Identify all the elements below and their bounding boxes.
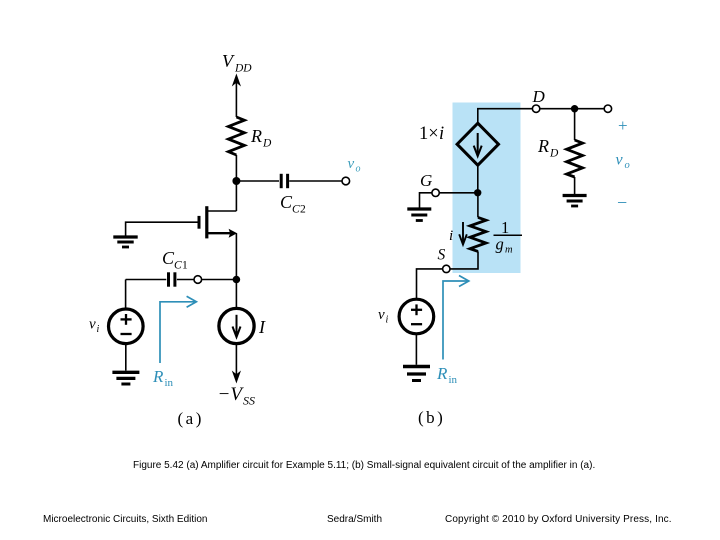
wire D to junction <box>540 108 575 110</box>
label i with arrow <box>449 222 467 245</box>
svg-text:o: o <box>356 164 361 175</box>
wire v_i to C_C1 <box>126 279 167 281</box>
svg-text:Copyright © 2010 by Oxford Uni: Copyright © 2010 by Oxford University Pr… <box>445 514 672 525</box>
resistor R_D (b) <box>567 140 583 177</box>
terminal gate input (a) <box>194 276 202 284</box>
svg-text:+: + <box>618 116 628 135</box>
svg-text:o: o <box>625 160 630 171</box>
wire C_C2 to output terminal <box>289 180 342 182</box>
node G junction <box>474 189 481 196</box>
capacitor C_C2 <box>281 174 287 188</box>
svg-text:C: C <box>292 204 300 216</box>
svg-text:v: v <box>616 152 624 169</box>
svg-text:Microelectronic Circuits, Sixt: Microelectronic Circuits, Sixth Edition <box>43 514 208 525</box>
wire G terminal to junction <box>439 192 477 194</box>
label v_i (a) <box>89 317 100 336</box>
label v_i (b) <box>378 307 389 326</box>
terminal G <box>432 189 439 196</box>
label V_DD <box>222 51 252 75</box>
wire R_D to ground (b) <box>574 177 576 194</box>
svg-text:v: v <box>89 317 96 333</box>
wire S to v_i (b) <box>417 269 443 299</box>
svg-text:D: D <box>549 148 559 160</box>
svg-text:v: v <box>348 156 355 172</box>
svg-text:i: i <box>386 315 389 326</box>
svg-text:G: G <box>420 171 432 190</box>
terminal S <box>443 265 450 272</box>
svg-text:in: in <box>449 374 458 386</box>
wire 1/gm to S <box>450 251 478 269</box>
label C_C1 <box>162 248 188 272</box>
voltage source v_i (b) <box>399 299 434 334</box>
resistor R_D (a) <box>228 117 244 155</box>
label 1xi <box>419 124 444 144</box>
svg-text:m: m <box>505 245 513 256</box>
ground (R_D b) <box>563 196 587 207</box>
node source junction (a) <box>233 276 241 284</box>
dependent source 1xi (diamond) <box>457 123 498 165</box>
wire junction to right terminal <box>575 108 605 110</box>
terminal v_o (a) <box>342 177 350 185</box>
wire source down to input node <box>235 233 237 279</box>
svg-text:1: 1 <box>182 260 188 272</box>
wire v_i top lead <box>125 280 127 309</box>
svg-text:g: g <box>496 235 504 254</box>
wire C_C1 to terminal <box>177 279 194 281</box>
label -V_SS <box>218 384 256 408</box>
terminal output (b) <box>604 105 611 112</box>
arrow R_in (a) <box>160 296 196 363</box>
terminal D <box>532 105 539 112</box>
svg-text:S: S <box>438 247 446 264</box>
label R_in (b) <box>436 364 458 386</box>
voltage source v_i (a) <box>109 309 144 344</box>
highlight rectangle (b) <box>453 103 521 274</box>
svg-text:R: R <box>250 126 262 146</box>
svg-text:D: D <box>532 87 546 106</box>
wire resistor to drain node <box>235 155 237 181</box>
label R_D (b) <box>537 136 559 160</box>
ground (v_i a) <box>112 372 139 384</box>
svg-text:−: − <box>617 193 627 213</box>
resistor 1/gm <box>470 217 486 251</box>
current source I (a) <box>219 308 254 343</box>
wire node down to MOSFET drain <box>235 181 237 211</box>
wire diamond top to D <box>478 109 533 124</box>
label v_o (b) <box>616 152 630 172</box>
svg-text:1×: 1× <box>419 124 439 144</box>
wire G to ground <box>420 193 432 208</box>
svg-text:R: R <box>436 364 448 383</box>
svg-text:C: C <box>174 260 182 272</box>
svg-text:D: D <box>262 138 272 150</box>
wire I to -VSS arrow <box>232 344 241 384</box>
svg-text:−V: −V <box>218 384 245 405</box>
label v_o (a) <box>348 156 361 175</box>
wire v_i bottom lead (b) <box>415 334 417 365</box>
wire junction down to 1/gm resistor <box>477 193 479 218</box>
svg-text:(a): (a) <box>178 409 204 428</box>
ground (v_i b) <box>403 367 430 381</box>
wire v_i bottom lead <box>125 344 127 371</box>
node drain junction (a) <box>232 177 240 185</box>
svg-text:i: i <box>449 228 453 244</box>
arrow R_in (b) <box>443 276 469 360</box>
svg-text:R: R <box>152 367 164 386</box>
svg-text:Figure 5.42 (a) Amplifier circ: Figure 5.42 (a) Amplifier circuit for Ex… <box>133 460 595 471</box>
svg-text:v: v <box>378 307 385 323</box>
svg-text:I: I <box>258 317 266 337</box>
svg-text:i: i <box>97 324 100 335</box>
node D junction <box>571 105 578 112</box>
svg-text:(b): (b) <box>418 408 445 427</box>
svg-text:i: i <box>439 124 444 144</box>
svg-text:DD: DD <box>234 63 252 75</box>
label 1/gm <box>494 218 523 256</box>
label R_D (a) <box>250 126 272 150</box>
wire gate to ground <box>126 222 199 236</box>
svg-text:Sedra/Smith: Sedra/Smith <box>327 514 382 525</box>
wire junction down to R_D (b) <box>574 109 576 140</box>
ground (G) <box>407 209 431 221</box>
wire node down to current source <box>235 280 237 309</box>
svg-text:R: R <box>537 136 549 156</box>
wire diamond bottom to junction <box>477 165 479 193</box>
svg-text:SS: SS <box>243 394 255 408</box>
wire VDD arrow up <box>232 74 241 118</box>
svg-text:in: in <box>165 377 174 389</box>
label R_in (a) <box>152 367 174 389</box>
wire node to C_C2 <box>236 180 279 182</box>
capacitor C_C1 <box>169 272 175 286</box>
transistor Q1 MOSFET <box>199 206 237 238</box>
ground (gate) <box>113 237 137 247</box>
svg-text:2: 2 <box>300 204 306 216</box>
wire terminal to source node <box>202 279 237 281</box>
label C_C2 <box>280 192 306 216</box>
